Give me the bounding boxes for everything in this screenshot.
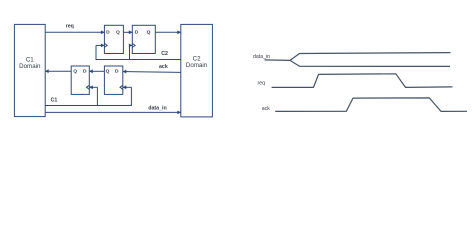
svg-text:ack: ack bbox=[159, 64, 168, 70]
svg-text:D: D bbox=[115, 68, 119, 74]
svg-text:Q: Q bbox=[116, 29, 120, 35]
svg-text:D: D bbox=[135, 29, 139, 35]
svg-text:D: D bbox=[83, 68, 87, 74]
svg-text:req: req bbox=[66, 24, 74, 30]
svg-text:D: D bbox=[106, 29, 110, 35]
svg-text:Q: Q bbox=[73, 68, 77, 74]
svg-text:data_in: data_in bbox=[253, 54, 270, 60]
svg-text:ack: ack bbox=[262, 106, 270, 112]
svg-text:Domain: Domain bbox=[186, 62, 208, 69]
svg-text:C2: C2 bbox=[161, 51, 168, 57]
svg-text:C1: C1 bbox=[51, 97, 58, 103]
svg-text:req: req bbox=[258, 81, 266, 87]
svg-text:data_in: data_in bbox=[148, 106, 167, 112]
svg-text:Q: Q bbox=[147, 29, 151, 35]
svg-text:Domain: Domain bbox=[19, 63, 41, 70]
svg-text:Q: Q bbox=[106, 68, 110, 74]
